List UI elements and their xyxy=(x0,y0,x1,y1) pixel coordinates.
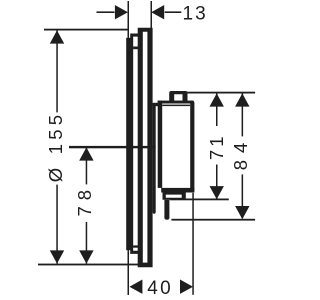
mounting bracket (U-channel) xyxy=(130,34,138,254)
svg-text:Ø 155: Ø 155 xyxy=(45,111,66,182)
svg-text:40: 40 xyxy=(147,278,173,299)
wall flange bar xyxy=(126,38,133,250)
lower stem bar xyxy=(164,200,169,220)
wire: top-right extension line (button top, for 71/84) xyxy=(186,92,255,94)
dimension 71: line + arrows xyxy=(216,93,218,126)
wire: bottom extension line (plate bottom, for O155/78) xyxy=(38,264,139,266)
escutcheon plate (tall rectangle, section) xyxy=(138,28,153,267)
wire: 40-dim right extension line xyxy=(192,193,194,295)
lower step box xyxy=(163,193,186,200)
wire: center axis line (78-dim top reference) xyxy=(69,146,156,148)
dimension 40 (bottom): arrows xyxy=(129,280,142,294)
dimension 78: line + arrows xyxy=(86,147,88,184)
handle rear wall xyxy=(158,101,163,188)
dimension 13: right arrow + tail xyxy=(151,5,164,19)
dimension O155 (left): line + arrows xyxy=(56,30,58,112)
svg-text:84: 84 xyxy=(230,136,251,171)
wire: 71-dim bottom extension line xyxy=(170,199,229,201)
wire: 13-dim right extension line xyxy=(151,1,153,29)
wire: top extension line (plate top, for O155) xyxy=(44,29,129,31)
valve sleeve column xyxy=(153,103,156,214)
dimension 84: line + arrows xyxy=(242,93,244,136)
handle bottom edge xyxy=(161,188,194,193)
wire: wall reference thin line (13-dim left extension + 40-dim left extension) xyxy=(128,1,130,295)
handle top edge xyxy=(158,101,194,104)
bracket screw crossbar bottom xyxy=(133,245,138,247)
handle front wall xyxy=(190,101,194,193)
svg-text:78: 78 xyxy=(74,184,95,217)
bracket screw crossbar top xyxy=(133,47,138,50)
svg-text:13: 13 xyxy=(183,3,208,24)
neck step (handle hub rear) xyxy=(153,103,160,106)
button on handle top xyxy=(169,91,187,103)
handle top inner line xyxy=(162,105,190,107)
wire: 84-dim bottom extension line xyxy=(171,219,255,221)
svg-text:71: 71 xyxy=(206,134,227,161)
dimension 13 (top): left tail + arrow xyxy=(97,11,115,13)
